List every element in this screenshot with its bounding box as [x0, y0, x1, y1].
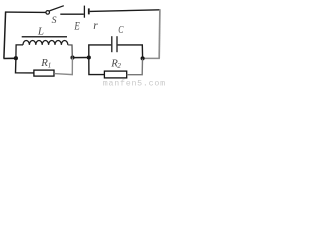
- svg-text:2: 2: [117, 62, 121, 70]
- wire battery to top-right corner: [90, 10, 160, 12]
- resistor R2 left lead: [89, 58, 105, 75]
- inductor L coil (7 humps): [23, 41, 68, 45]
- svg-text:E: E: [74, 20, 80, 32]
- wire mid connector between nodes: [73, 57, 89, 59]
- wire right stub to node (grey): [143, 57, 160, 59]
- svg-text:1: 1: [48, 62, 52, 70]
- wire bottom-left stub to node: [4, 57, 16, 59]
- node dot mid-right: [87, 55, 91, 59]
- inductor L right lead: [68, 45, 73, 58]
- resistor R1 box: [34, 70, 54, 76]
- wire switch to battery: [60, 13, 84, 15]
- capacitor C plate right: [116, 36, 118, 52]
- svg-text:L: L: [37, 26, 44, 38]
- wire top-left horizontal: [5, 11, 46, 13]
- resistor R2 box: [104, 71, 126, 78]
- resistor R2 right lead (grey): [127, 59, 143, 75]
- node dot left: [14, 56, 18, 60]
- battery short plate: [88, 8, 90, 14]
- resistor R1 right lead (grey): [54, 58, 72, 75]
- svg-text:r: r: [93, 20, 98, 32]
- battery long plate: [83, 6, 85, 18]
- inductor L left lead: [16, 45, 23, 58]
- capacitor C plate left: [111, 36, 113, 52]
- wire left vertical: [4, 12, 6, 59]
- node dot mid-left: [70, 56, 74, 60]
- switch S circle pivot: [46, 11, 50, 15]
- svg-text:S: S: [52, 15, 57, 26]
- capacitor C left lead: [89, 45, 111, 58]
- inductor core bar: [22, 36, 67, 38]
- svg-text:manfen5.com: manfen5.com: [103, 79, 166, 87]
- wire right vertical (grey): [158, 9, 161, 58]
- resistor R1 left lead: [16, 58, 34, 73]
- node dot right: [141, 56, 145, 60]
- svg-text:C: C: [118, 25, 123, 36]
- switch S lever: [49, 6, 63, 11]
- capacitor C right lead: [118, 45, 143, 59]
